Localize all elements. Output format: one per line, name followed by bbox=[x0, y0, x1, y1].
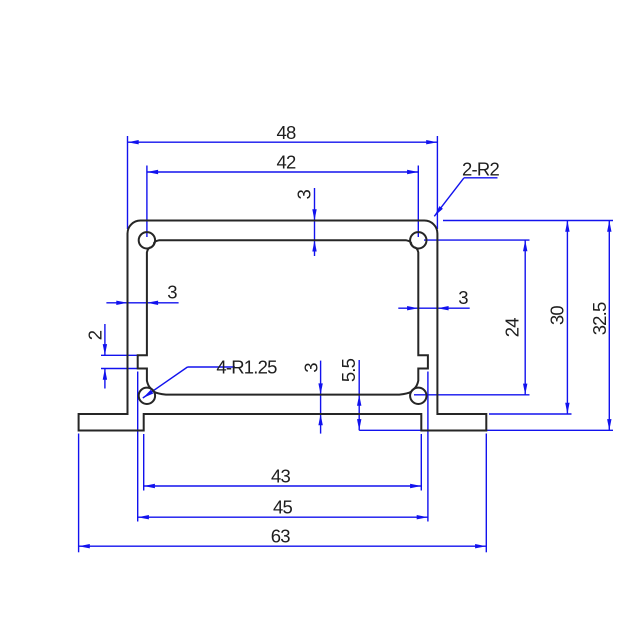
extension line top right bbox=[443, 220, 613, 222]
extension line 45 right bbox=[427, 372, 429, 522]
extension line 45 left bbox=[137, 372, 139, 522]
svg-text:42: 42 bbox=[277, 152, 296, 173]
dimension 48 bbox=[128, 141, 438, 143]
extension line 2 upper bbox=[101, 354, 138, 356]
svg-text:48: 48 bbox=[277, 122, 296, 143]
screw boss circle 2 bbox=[410, 232, 426, 248]
svg-text:43: 43 bbox=[271, 466, 290, 487]
dimension 43 bbox=[144, 485, 422, 487]
screw boss circle 3 bbox=[139, 388, 155, 404]
dimension 3 left wall bbox=[106, 302, 178, 304]
dimension 32.5 bbox=[608, 221, 610, 431]
extension line 42 right bbox=[417, 166, 419, 238]
svg-text:4-R1.25: 4-R1.25 bbox=[216, 357, 277, 378]
extension line 63 right bbox=[485, 434, 487, 553]
svg-text:2: 2 bbox=[84, 330, 105, 340]
profile inner cavity with screw bosses bbox=[138, 240, 428, 394]
extension line 63 left bbox=[78, 434, 80, 553]
screw boss circle 4 bbox=[410, 388, 426, 404]
svg-text:63: 63 bbox=[271, 526, 290, 547]
svg-text:3: 3 bbox=[300, 363, 321, 373]
extension line 48 left bbox=[127, 136, 129, 229]
extension line 43 right bbox=[420, 434, 422, 491]
dimension 45 bbox=[138, 516, 428, 518]
svg-text:32.5: 32.5 bbox=[589, 302, 610, 335]
dimension 30 bbox=[566, 221, 568, 415]
extension line 30 lower bbox=[489, 413, 572, 415]
extension line 48 right bbox=[436, 136, 438, 229]
svg-text:3: 3 bbox=[458, 287, 468, 308]
svg-text:5.5: 5.5 bbox=[338, 358, 359, 382]
leader 2-R2 bbox=[434, 178, 464, 217]
extension line 2 lower bbox=[101, 368, 147, 370]
extension line 43 left bbox=[143, 434, 145, 491]
svg-text:3: 3 bbox=[294, 189, 315, 199]
dimension 3 top wall bbox=[314, 188, 316, 256]
svg-text:45: 45 bbox=[273, 497, 292, 518]
extension line 24 upper bbox=[424, 239, 530, 241]
svg-text:30: 30 bbox=[546, 306, 567, 325]
dimension 2 bbox=[104, 324, 106, 355]
dimension 42 bbox=[147, 171, 418, 173]
screw boss circle 1 bbox=[139, 232, 155, 248]
dimension 3 right wall bbox=[398, 307, 469, 309]
dimension 63 bbox=[79, 545, 487, 547]
dimension 3 bottom wall bbox=[320, 361, 322, 434]
extension line flange bottom right bbox=[359, 429, 613, 431]
svg-text:3: 3 bbox=[167, 282, 177, 303]
profile outer contour bbox=[79, 221, 487, 431]
svg-text:2-R2: 2-R2 bbox=[462, 159, 499, 180]
svg-text:24: 24 bbox=[501, 318, 522, 337]
extension line 42 left bbox=[146, 166, 148, 238]
leader 4-R1.25 bbox=[143, 367, 188, 398]
dimension 5.5 bbox=[358, 360, 360, 430]
extension line 24 lower bbox=[414, 394, 530, 396]
dimension 24 bbox=[524, 240, 526, 395]
